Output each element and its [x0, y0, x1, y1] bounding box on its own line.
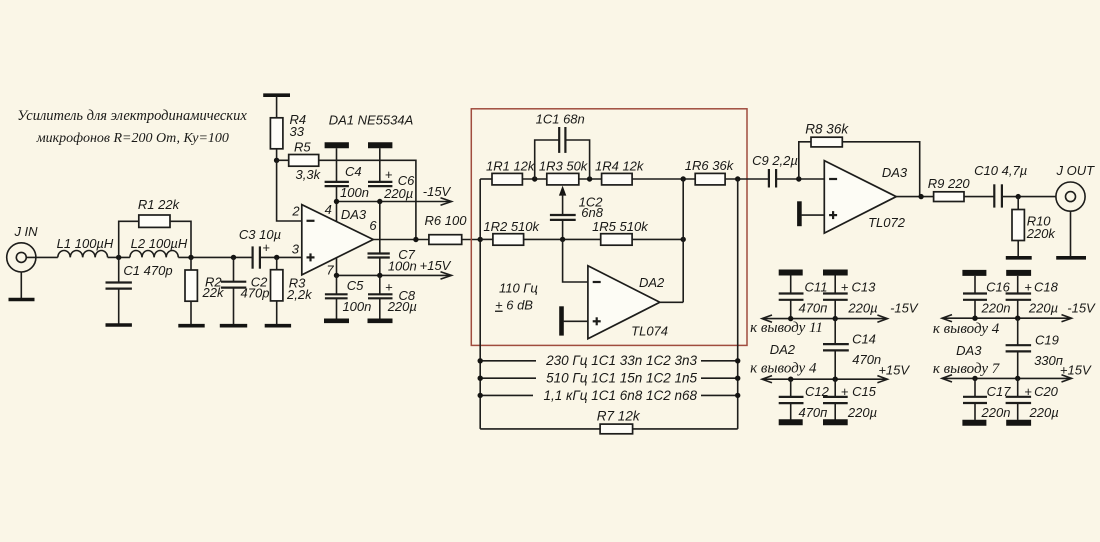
capacitor C3 — [239, 227, 302, 269]
connector J OUT — [1056, 163, 1096, 211]
resistor 1R5 — [592, 219, 683, 245]
red highlight box (filter section) — [471, 109, 747, 346]
svg-text:100n: 100n — [342, 299, 371, 314]
capacitor C15 — [823, 379, 877, 420]
svg-text:L2 100µH: L2 100µH — [131, 236, 188, 251]
svg-text:+: + — [1024, 280, 1032, 295]
svg-text:DA3: DA3 — [882, 165, 908, 180]
wire right band bus vertical — [737, 179, 739, 429]
svg-text:1R2 510k: 1R2 510k — [483, 219, 540, 234]
connector J IN — [7, 224, 38, 272]
svg-text:J IN: J IN — [13, 224, 38, 239]
resistor 1R2 — [480, 219, 601, 245]
node (1R4 row / 1R6) — [681, 176, 686, 181]
svg-text:C1 470p: C1 470p — [123, 263, 172, 278]
ground bar (below C12) — [779, 419, 803, 425]
svg-text:220µ: 220µ — [387, 299, 417, 314]
capacitor C4 — [325, 148, 369, 201]
svg-text:R9 220: R9 220 — [928, 176, 971, 191]
node (L1/L2/C1/R1 junction) — [116, 255, 121, 260]
svg-text:100n: 100n — [388, 258, 417, 273]
svg-text:R6 100: R6 100 — [425, 213, 468, 228]
node (output/feedback) — [413, 237, 418, 242]
svg-text:C9 2,2µ: C9 2,2µ — [752, 153, 798, 168]
svg-text:C10 4,7µ: C10 4,7µ — [974, 163, 1027, 178]
svg-text:R8 36k: R8 36k — [805, 122, 849, 137]
ground (R10) — [1006, 256, 1032, 260]
capacitor C10 — [974, 163, 1056, 207]
node (C3/R3/pin3) — [274, 255, 279, 260]
svg-text:DA2: DA2 — [770, 342, 796, 357]
inductor L1 — [57, 236, 114, 257]
resistor R4 — [270, 112, 306, 161]
svg-text:1R5 510k: 1R5 510k — [592, 219, 649, 234]
svg-text:DA2: DA2 — [639, 275, 665, 290]
svg-text:3: 3 — [292, 241, 300, 256]
ground bar (above C6) — [368, 142, 392, 148]
svg-text:R5: R5 — [294, 139, 311, 154]
ground bar (above C11) — [779, 270, 803, 276]
capacitor 1C1 — [535, 112, 590, 179]
svg-text:230 Гц 1С1 33n 1С2 3n3: 230 Гц 1С1 33n 1С2 3n3 — [545, 353, 697, 368]
svg-text:220k: 220k — [1026, 226, 1057, 241]
svg-text:1R3 50k: 1R3 50k — [539, 158, 589, 173]
wire pin2 — [277, 160, 302, 221]
capacitor C16 — [963, 276, 1011, 318]
svg-text:470p: 470p — [241, 286, 270, 301]
svg-text:микрофонов R=200 От, Ку=100: микрофонов R=200 От, Ку=100 — [36, 131, 229, 146]
resistor R7 — [480, 408, 738, 433]
svg-text:+: + — [841, 280, 849, 295]
svg-text:C15: C15 — [852, 384, 877, 399]
band row 510 Hz — [478, 371, 741, 386]
resistor R6 — [425, 213, 481, 245]
svg-text:220µ: 220µ — [1029, 405, 1059, 420]
resistor R1 (parallel with L2) — [119, 197, 191, 258]
svg-text:+: + — [262, 240, 270, 255]
capacitor 1C2 — [550, 195, 604, 240]
svg-text:6n8: 6n8 — [581, 205, 603, 220]
inductor L2 — [130, 236, 188, 258]
resistor 1R4 — [595, 158, 695, 185]
capacitor C20 — [1006, 378, 1059, 420]
svg-text:TL074: TL074 — [631, 324, 668, 339]
ground (J IN) — [9, 272, 35, 300]
svg-text:110 Гц: 110 Гц — [499, 281, 538, 296]
node (pin7/C5 on rail) — [334, 273, 339, 278]
capacitor C5 — [325, 275, 371, 319]
ground bar (below C8) — [368, 318, 393, 323]
resistor 1R6 — [685, 158, 769, 185]
svg-text:C3 10µ: C3 10µ — [239, 227, 281, 242]
wire DA2 inverting input — [563, 239, 588, 282]
svg-text:C5: C5 — [347, 278, 364, 293]
svg-text:4: 4 — [325, 202, 332, 217]
svg-text:220µ: 220µ — [847, 405, 877, 420]
ground (C1) — [106, 323, 132, 327]
wire DA1 output — [373, 239, 429, 241]
svg-text:470n: 470n — [852, 352, 881, 367]
svg-text:2: 2 — [291, 204, 300, 219]
svg-text:DA3: DA3 — [341, 207, 367, 222]
capacitor C18 — [1006, 276, 1096, 318]
node (C7/C8 on rail) — [377, 273, 382, 278]
node (C9/R8/DA3 inv) — [796, 176, 801, 181]
ground bar (above C13) — [823, 270, 848, 276]
resistor R10 — [1012, 197, 1056, 257]
wire right vertical (DA2 output bus) — [682, 179, 684, 302]
ground (R2) — [178, 324, 204, 328]
+15V rail (DA1) — [337, 258, 452, 279]
capacitor C1 — [106, 257, 173, 324]
svg-text:220µ: 220µ — [1028, 301, 1058, 316]
ground (R3) — [265, 324, 291, 328]
svg-text:220n: 220n — [981, 301, 1011, 316]
svg-text:+ 6 dB: + 6 dB — [495, 298, 533, 313]
svg-text:1R4 12k: 1R4 12k — [595, 158, 645, 173]
+15V rail (DA3, pin 7) — [933, 361, 1092, 382]
capacitor C11 — [779, 276, 828, 319]
svg-text:J OUT: J OUT — [1056, 163, 1096, 178]
ground bar (below C17) — [962, 420, 986, 426]
svg-text:L1 100µH: L1 100µH — [57, 236, 114, 251]
wire left vertical in box (input bus) — [479, 179, 481, 429]
-15V rail (DA2, pin 11) — [750, 315, 887, 336]
svg-text:C19: C19 — [1035, 333, 1059, 348]
node (C10/R10/J OUT) — [1016, 194, 1021, 199]
node (input bus / 1R2 row) — [478, 237, 483, 242]
svg-text:C14: C14 — [852, 332, 876, 347]
node (1R1/1R3/1C1) — [532, 176, 537, 181]
ground bar (above C18) — [1006, 270, 1031, 276]
capacitor C19 — [1006, 318, 1063, 378]
ground (top, R4) — [263, 95, 290, 118]
wire R5 to output (feedback) — [319, 160, 416, 239]
-15V rail (DA1) — [337, 184, 452, 205]
svg-text:220µ: 220µ — [383, 186, 413, 201]
capacitor C6 — [368, 148, 415, 201]
op-amp DA1 — [291, 113, 413, 278]
node (1R3/1R4/1C1) — [587, 176, 592, 181]
resistor R5 — [277, 139, 322, 182]
svg-text:к выводу 4: к выводу 4 — [933, 321, 1000, 337]
svg-text:7: 7 — [326, 263, 334, 278]
op-amp DA2 — [588, 266, 668, 339]
ground bar (below C20) — [1006, 420, 1031, 426]
svg-text:к выводу 7: к выводу 7 — [933, 361, 1001, 377]
resistor 1R1 — [486, 158, 547, 185]
svg-text:+: + — [841, 384, 849, 399]
wire pin4 — [336, 202, 338, 223]
svg-text:-15V: -15V — [890, 301, 919, 316]
svg-text:1R1 12k: 1R1 12k — [486, 158, 536, 173]
capacitor C2 — [221, 257, 270, 325]
resistor R8 (feedback) — [799, 122, 920, 197]
svg-text:TL072: TL072 — [868, 215, 906, 230]
resistor R2 — [185, 257, 225, 325]
svg-text:R7 12k: R7 12k — [597, 408, 641, 423]
ground bar (above C4) — [325, 142, 349, 148]
node (1R5 row / feedback bus) — [681, 237, 686, 242]
wire DA2 output — [660, 301, 683, 303]
node (R4/R5/pin2) — [274, 158, 279, 163]
svg-text:-15V: -15V — [1067, 301, 1096, 316]
svg-text:C18: C18 — [1034, 280, 1059, 295]
node (C2 junction) — [231, 255, 236, 260]
band row 230 Hz — [478, 353, 741, 368]
node (L2/R1/R2) — [188, 255, 193, 260]
resistor R3 — [271, 257, 314, 325]
capacitor C8 — [368, 275, 417, 319]
ground bar (below C15) — [823, 419, 848, 425]
capacitor C12 — [779, 379, 830, 420]
svg-text:DA3: DA3 — [956, 343, 982, 358]
svg-text:100n: 100n — [340, 185, 369, 200]
svg-text:1R6 36k: 1R6 36k — [685, 158, 735, 173]
resistor R9 — [928, 176, 995, 201]
svg-text:Усилитель для электродинамичес: Усилитель для электродинамических — [17, 108, 247, 124]
svg-text:-15V: -15V — [423, 184, 452, 199]
svg-text:DA1 NE5534A: DA1 NE5534A — [329, 113, 414, 128]
svg-text:C11: C11 — [805, 280, 828, 295]
node (DA3 out/R8) — [918, 194, 923, 199]
capacitor C14 — [823, 319, 881, 380]
svg-text:3,3k: 3,3k — [296, 167, 322, 182]
svg-text:1,1 кГц 1С1 6n8 1С2 n68: 1,1 кГц 1С1 6n8 1С2 n68 — [544, 388, 698, 403]
ground (DA3 + input) — [799, 201, 824, 226]
svg-text:33: 33 — [290, 124, 305, 139]
svg-text:C16: C16 — [986, 280, 1011, 295]
svg-text:+: + — [1024, 384, 1032, 399]
svg-text:220µ: 220µ — [847, 301, 877, 316]
wire DA3 output — [896, 196, 933, 198]
wire pin7 — [336, 258, 338, 275]
band row 1,1 kHz — [478, 388, 741, 403]
-15V rail (DA3, pin 4) — [933, 315, 1072, 337]
capacitor C7 (between rails) — [368, 202, 417, 276]
wire row1 left — [480, 178, 492, 180]
wire L1 to L2 through node — [108, 256, 130, 258]
svg-text:220n: 220n — [981, 405, 1011, 420]
ground bar (above C16) — [962, 270, 986, 276]
svg-text:к выводу 4: к выводу 4 — [750, 360, 817, 376]
svg-text:6: 6 — [369, 218, 377, 233]
svg-text:C13: C13 — [851, 280, 876, 295]
ground (DA2 + input) — [562, 306, 588, 335]
+15V rail (DA2, pin 4) — [750, 360, 910, 383]
node (C4/pin4 on rail) — [334, 199, 339, 204]
capacitor C17 — [963, 378, 1011, 420]
op-amp DA3 — [824, 161, 908, 234]
node (1C2/1R2/1R5/DA2 inv) — [560, 237, 565, 242]
node (1R6 / band bus) — [735, 176, 740, 181]
svg-text:к выводу 11: к выводу 11 — [750, 320, 823, 336]
wire J IN to L1 — [26, 256, 58, 258]
node (C6/C7 on rail) — [377, 199, 382, 204]
svg-text:510 Гц 1С1 15n 1С2 1n5: 510 Гц 1С1 15n 1С2 1n5 — [546, 371, 697, 386]
svg-text:+: + — [385, 167, 393, 182]
ground (C2) — [220, 324, 247, 328]
ground bar (below C5) — [324, 318, 349, 323]
wire L2 to C3 — [178, 256, 252, 258]
svg-text:+15V: +15V — [420, 258, 452, 273]
svg-text:+15V: +15V — [1060, 362, 1092, 377]
svg-text:R1 22k: R1 22k — [138, 197, 181, 212]
svg-text:1C1 68n: 1C1 68n — [536, 112, 585, 127]
svg-text:470п: 470п — [798, 405, 827, 420]
ground (J OUT) — [1056, 211, 1086, 258]
svg-text:470п: 470п — [798, 301, 827, 316]
potentiometer 1R3 — [539, 158, 602, 214]
svg-text:2,2k: 2,2k — [286, 287, 313, 302]
svg-text:330п: 330п — [1034, 353, 1063, 368]
capacitor C13 — [823, 276, 919, 319]
svg-text:C20: C20 — [1034, 384, 1059, 399]
svg-text:+15V: +15V — [878, 362, 910, 377]
svg-text:C4: C4 — [345, 164, 362, 179]
svg-text:+: + — [385, 279, 393, 294]
capacitor C9 — [752, 153, 824, 188]
